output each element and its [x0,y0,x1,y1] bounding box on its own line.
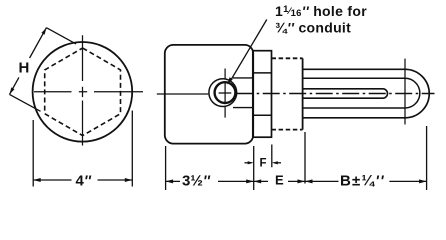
node dimension 3.5in [166,180,254,182]
node heating element tubes [303,69,405,118]
node leader line [231,20,267,81]
wire hole vertical centerline [224,69,226,118]
wire hole bore lines [233,78,253,108]
svg-text:F: F [260,158,267,170]
wire hole center crossbar [219,92,232,94]
node conduit hole outer boss [209,79,237,107]
wire horizontal centerline front [34,91,143,93]
node hex nut side view [253,51,272,138]
node hex nut hidden outline [45,48,121,136]
svg-text:4'': 4'' [76,172,92,189]
svg-text:¾'' conduit: ¾'' conduit [275,19,351,35]
svg-text:3½'': 3½'' [182,173,210,190]
node dimension B [305,180,427,182]
wire extension lines bottom [166,126,427,190]
wire vertical centerline front [82,35,84,145]
wire side view horizontal centerline left [157,93,209,95]
wire terminal housing box [165,45,253,144]
svg-text:B±¼'': B±¼'' [340,172,385,189]
node element U-bend [405,69,429,118]
node threaded plug [272,58,303,129]
node dimension E [254,180,305,182]
node conduit hole [215,82,236,103]
svg-text:11⁄16'' hole for: 11⁄16'' hole for [275,3,367,19]
node dimension 4in [33,111,132,187]
node inner element rod [303,89,387,98]
wire element dash-dot centerline [236,93,434,95]
node dimension H [10,28,47,95]
wire circle housing front [33,42,133,142]
svg-text:E: E [275,172,284,187]
svg-text:H: H [19,60,30,77]
wire bend vertical centerline [404,59,406,125]
node dimension F [248,161,254,164]
